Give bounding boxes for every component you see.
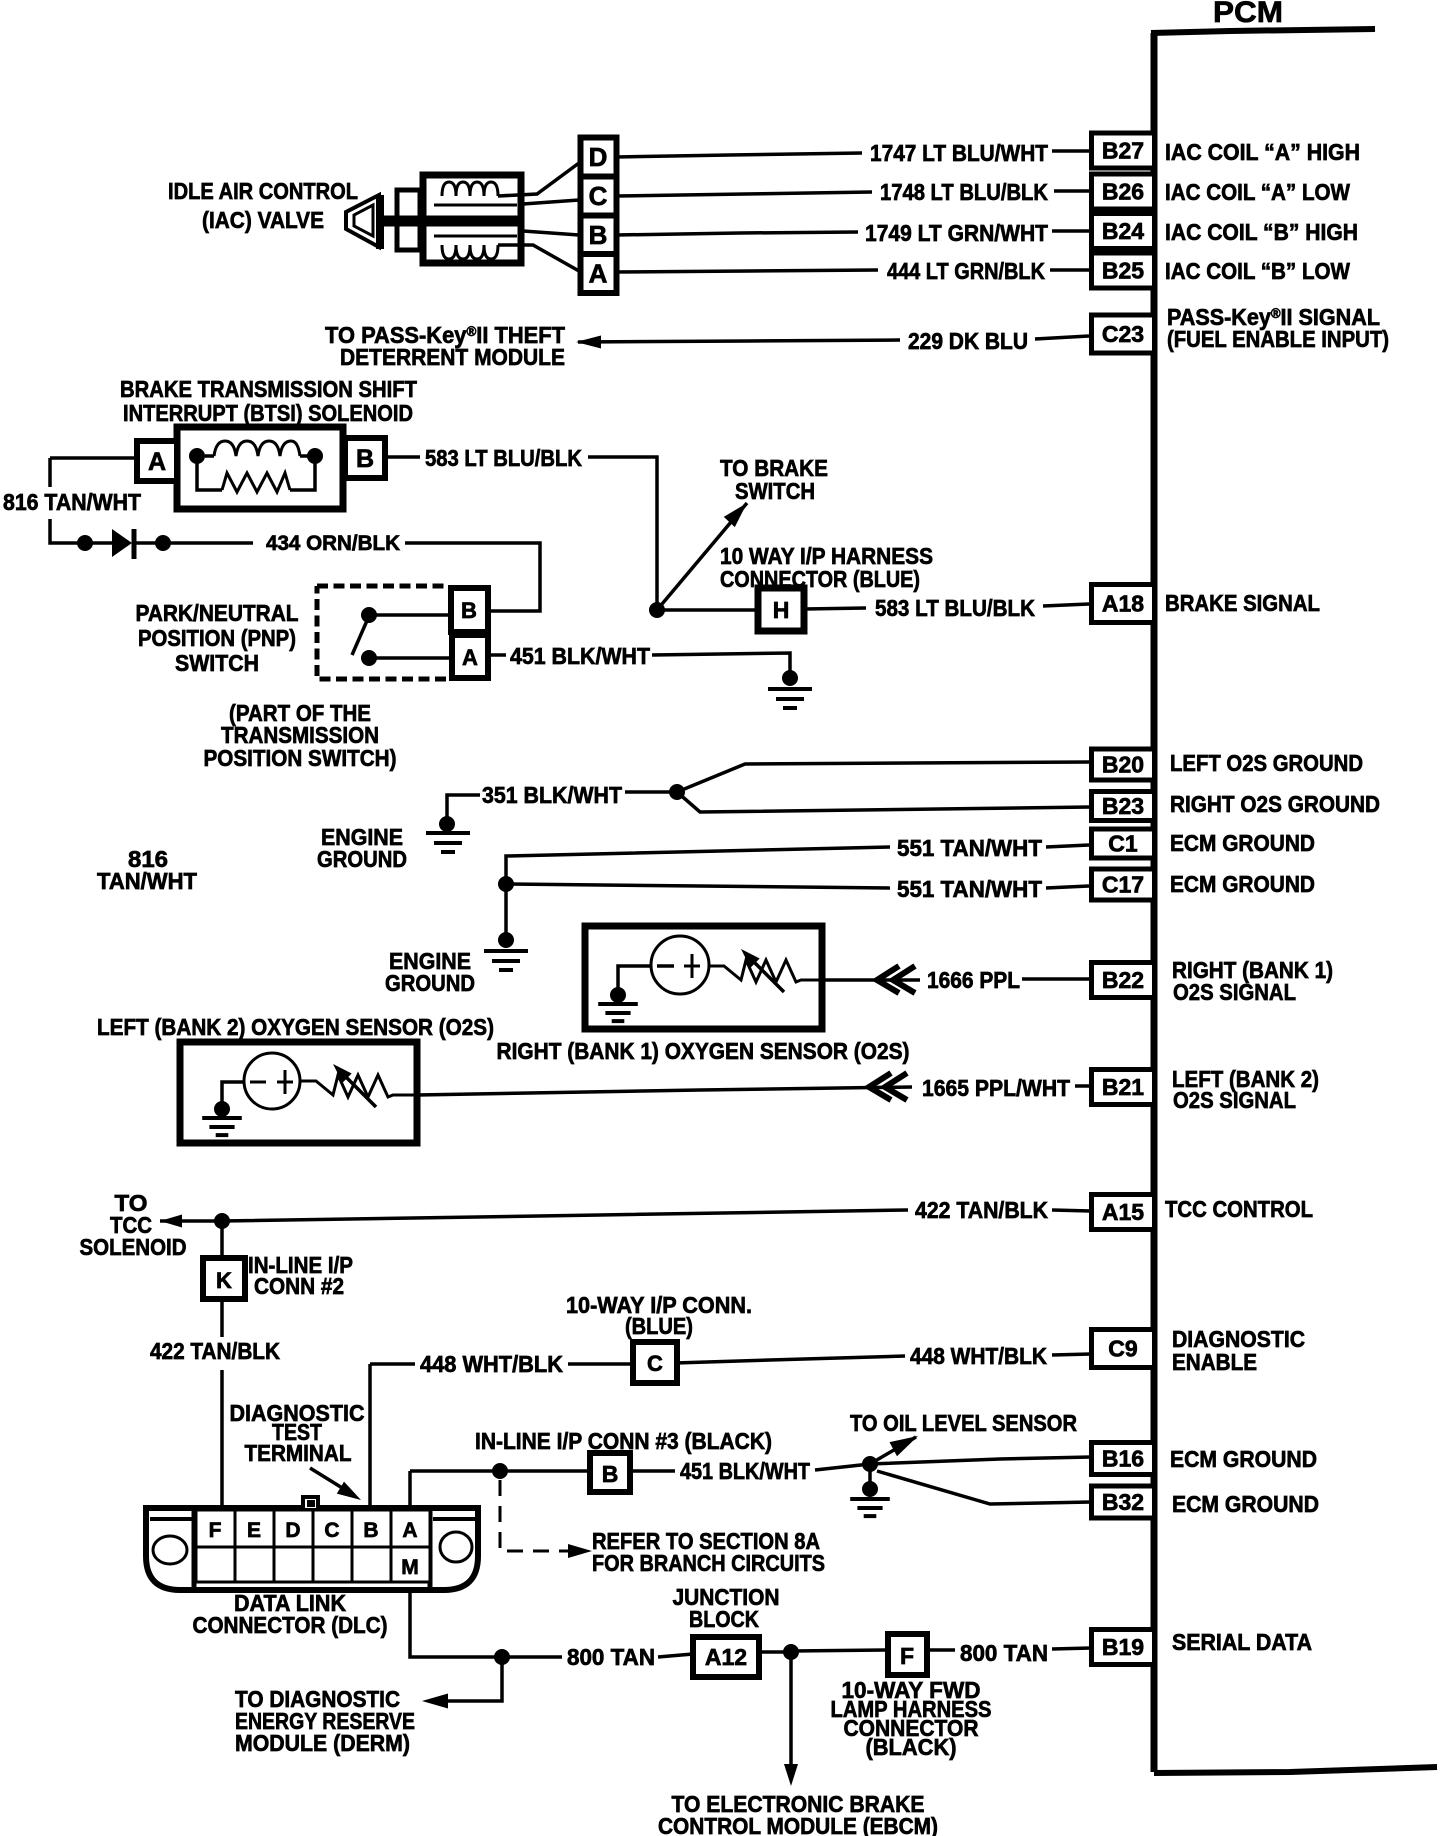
- svg-text:B: B: [602, 1461, 619, 1487]
- svg-text:ECM GROUND: ECM GROUND: [1170, 1446, 1317, 1472]
- svg-text:CONNECTOR (BLUE): CONNECTOR (BLUE): [720, 566, 920, 592]
- svg-text:(BLUE): (BLUE): [625, 1313, 693, 1339]
- svg-text:SWITCH: SWITCH: [735, 478, 815, 504]
- svg-text:CONNECTOR (DLC): CONNECTOR (DLC): [193, 1612, 388, 1638]
- svg-text:B23: B23: [1102, 793, 1144, 819]
- svg-text:816 TAN/WHT: 816 TAN/WHT: [3, 489, 141, 515]
- svg-text:444 LT GRN/BLK: 444 LT GRN/BLK: [887, 258, 1045, 284]
- svg-text:TO OIL LEVEL SENSOR: TO OIL LEVEL SENSOR: [850, 1410, 1077, 1436]
- svg-text:B20: B20: [1102, 752, 1144, 778]
- svg-text:A: A: [402, 1519, 417, 1542]
- svg-text:422 TAN/BLK: 422 TAN/BLK: [915, 1197, 1048, 1223]
- svg-text:GROUND: GROUND: [317, 846, 407, 872]
- svg-text:M: M: [401, 1556, 419, 1579]
- svg-text:PCM: PCM: [1213, 0, 1283, 29]
- svg-text:A: A: [148, 448, 166, 476]
- svg-text:A: A: [589, 259, 608, 289]
- svg-text:FOR BRANCH CIRCUITS: FOR BRANCH CIRCUITS: [592, 1550, 825, 1576]
- svg-text:PARK/NEUTRAL: PARK/NEUTRAL: [136, 600, 299, 626]
- svg-text:TERMINAL: TERMINAL: [245, 1440, 352, 1466]
- svg-text:C: C: [589, 181, 608, 211]
- svg-text:351 BLK/WHT: 351 BLK/WHT: [482, 782, 622, 808]
- svg-text:1749 LT GRN/WHT: 1749 LT GRN/WHT: [865, 220, 1048, 246]
- svg-text:583 LT BLU/BLK: 583 LT BLU/BLK: [425, 445, 582, 471]
- svg-text:B22: B22: [1102, 967, 1144, 993]
- svg-text:C17: C17: [1102, 872, 1144, 898]
- svg-text:229 DK BLU: 229 DK BLU: [908, 328, 1028, 354]
- svg-text:H: H: [773, 597, 790, 623]
- svg-text:ECM GROUND: ECM GROUND: [1170, 871, 1315, 897]
- svg-text:B: B: [589, 220, 608, 250]
- svg-text:TCC CONTROL: TCC CONTROL: [1165, 1196, 1313, 1222]
- svg-text:CONN #2: CONN #2: [254, 1273, 344, 1299]
- svg-text:POSITION (PNP): POSITION (PNP): [138, 625, 296, 651]
- svg-text:C23: C23: [1102, 321, 1144, 347]
- svg-text:ECM GROUND: ECM GROUND: [1170, 830, 1315, 856]
- svg-text:D: D: [285, 1519, 300, 1542]
- svg-text:422 TAN/BLK: 422 TAN/BLK: [150, 1338, 280, 1364]
- svg-text:DETERRENT MODULE: DETERRENT MODULE: [340, 344, 565, 370]
- svg-text:B16: B16: [1102, 1446, 1144, 1472]
- svg-text:LEFT O2S GROUND: LEFT O2S GROUND: [1170, 750, 1363, 776]
- svg-text:800 TAN: 800 TAN: [567, 1644, 655, 1670]
- svg-text:(IAC) VALVE: (IAC) VALVE: [202, 207, 324, 233]
- svg-text:IAC COIL “A” HIGH: IAC COIL “A” HIGH: [1165, 139, 1360, 165]
- svg-text:E: E: [247, 1519, 261, 1542]
- svg-text:SERIAL DATA: SERIAL DATA: [1172, 1629, 1312, 1655]
- svg-text:1748 LT BLU/BLK: 1748 LT BLU/BLK: [880, 179, 1048, 205]
- svg-text:BRAKE SIGNAL: BRAKE SIGNAL: [1165, 590, 1320, 616]
- svg-text:1665 PPL/WHT: 1665 PPL/WHT: [922, 1075, 1070, 1101]
- svg-text:551 TAN/WHT: 551 TAN/WHT: [897, 835, 1042, 861]
- svg-text:POSITION SWITCH): POSITION SWITCH): [204, 745, 397, 771]
- svg-text:B21: B21: [1102, 1074, 1144, 1100]
- svg-text:551 TAN/WHT: 551 TAN/WHT: [897, 876, 1042, 902]
- svg-text:GROUND: GROUND: [385, 970, 475, 996]
- svg-text:F: F: [209, 1519, 222, 1542]
- svg-text:448 WHT/BLK: 448 WHT/BLK: [910, 1343, 1047, 1369]
- svg-text:B: B: [363, 1519, 378, 1542]
- svg-text:BLOCK: BLOCK: [689, 1606, 759, 1632]
- svg-text:A12: A12: [705, 1644, 747, 1670]
- svg-text:B24: B24: [1102, 218, 1144, 244]
- svg-text:(FUEL ENABLE INPUT): (FUEL ENABLE INPUT): [1167, 326, 1389, 352]
- svg-text:SOLENOID: SOLENOID: [80, 1234, 187, 1260]
- svg-text:MODULE (DERM): MODULE (DERM): [235, 1730, 410, 1756]
- svg-text:F: F: [900, 1643, 914, 1669]
- svg-text:B32: B32: [1102, 1489, 1144, 1515]
- svg-text:RIGHT (BANK 1) OXYGEN SENSOR (: RIGHT (BANK 1) OXYGEN SENSOR (O2S): [497, 1038, 910, 1064]
- svg-text:BRAKE TRANSMISSION SHIFT: BRAKE TRANSMISSION SHIFT: [120, 376, 417, 402]
- svg-text:O2S SIGNAL: O2S SIGNAL: [1173, 979, 1296, 1005]
- svg-text:B26: B26: [1102, 179, 1144, 205]
- svg-text:TAN/WHT: TAN/WHT: [97, 868, 197, 894]
- svg-text:B25: B25: [1102, 258, 1144, 284]
- svg-text:A: A: [462, 645, 478, 670]
- svg-text:SWITCH: SWITCH: [175, 650, 259, 676]
- svg-text:A15: A15: [1102, 1199, 1144, 1225]
- svg-text:D: D: [589, 142, 608, 172]
- svg-text:K: K: [216, 1268, 232, 1293]
- svg-text:O2S SIGNAL: O2S SIGNAL: [1173, 1087, 1296, 1113]
- svg-text:1747 LT BLU/WHT: 1747 LT BLU/WHT: [870, 140, 1048, 166]
- svg-text:ECM GROUND: ECM GROUND: [1172, 1491, 1319, 1517]
- svg-text:(BLACK): (BLACK): [866, 1734, 957, 1760]
- svg-text:C1: C1: [1108, 831, 1138, 857]
- svg-text:451 BLK/WHT: 451 BLK/WHT: [680, 1458, 810, 1484]
- svg-text:A18: A18: [1102, 591, 1144, 617]
- svg-text:451 BLK/WHT: 451 BLK/WHT: [510, 643, 650, 669]
- svg-text:C9: C9: [1108, 1336, 1137, 1362]
- svg-text:CONTROL MODULE (EBCM): CONTROL MODULE (EBCM): [658, 1813, 938, 1836]
- svg-text:C: C: [647, 1351, 663, 1376]
- svg-text:IAC COIL “B” HIGH: IAC COIL “B” HIGH: [1165, 219, 1358, 245]
- svg-text:B19: B19: [1102, 1634, 1144, 1660]
- svg-text:434 ORN/BLK: 434 ORN/BLK: [266, 532, 400, 555]
- svg-text:B: B: [356, 445, 374, 473]
- svg-text:INTERRUPT (BTSI) SOLENOID: INTERRUPT (BTSI) SOLENOID: [123, 400, 413, 426]
- svg-text:B27: B27: [1102, 138, 1144, 164]
- svg-text:800 TAN: 800 TAN: [960, 1640, 1048, 1666]
- svg-text:LEFT (BANK 2) OXYGEN SENSOR (O: LEFT (BANK 2) OXYGEN SENSOR (O2S): [97, 1014, 494, 1040]
- svg-text:C: C: [324, 1519, 339, 1542]
- svg-text:RIGHT O2S GROUND: RIGHT O2S GROUND: [1170, 791, 1380, 817]
- svg-text:B: B: [461, 598, 477, 623]
- svg-text:448 WHT/BLK: 448 WHT/BLK: [420, 1351, 563, 1377]
- svg-text:IAC COIL “B” LOW: IAC COIL “B” LOW: [1165, 258, 1350, 284]
- svg-text:IAC COIL “A” LOW: IAC COIL “A” LOW: [1165, 179, 1350, 205]
- svg-text:1666 PPL: 1666 PPL: [927, 967, 1020, 993]
- svg-text:ENABLE: ENABLE: [1172, 1349, 1257, 1375]
- svg-text:IDLE AIR CONTROL: IDLE AIR CONTROL: [168, 178, 358, 204]
- svg-text:583 LT BLU/BLK: 583 LT BLU/BLK: [875, 595, 1035, 621]
